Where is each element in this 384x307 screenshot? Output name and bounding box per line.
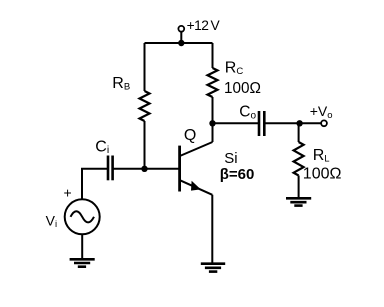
wire RL top lead <box>298 123 300 142</box>
node output junction dot <box>296 120 302 126</box>
wire supply stub <box>180 32 182 43</box>
transistor Q <box>180 123 213 195</box>
resistor RC <box>208 68 218 97</box>
wire base <box>114 168 180 170</box>
wire collector to Co <box>213 122 259 124</box>
svg-text:β=60: β=60 <box>220 166 255 183</box>
svg-text:+12 V: +12 V <box>187 18 221 33</box>
wire Co to output node <box>266 122 322 124</box>
emitter arrow <box>191 181 201 191</box>
ground emitter <box>201 264 225 272</box>
wire RB top lead <box>144 43 146 91</box>
ground RL <box>286 198 311 205</box>
svg-text:100Ω: 100Ω <box>224 80 261 97</box>
node collector junction dot <box>209 120 215 126</box>
wire collector vertical <box>212 123 214 142</box>
wire emitter vertical <box>211 195 213 264</box>
resistor RL <box>294 142 304 176</box>
svg-text:Si: Si <box>224 150 237 167</box>
resistor RB <box>140 91 150 121</box>
svg-text:+: + <box>64 185 72 201</box>
capacitor Co <box>258 111 261 136</box>
svg-text:100Ω: 100Ω <box>303 165 342 182</box>
node junction dot on top rail <box>178 40 184 46</box>
source Vi circle <box>65 199 100 234</box>
wire RB bottom lead <box>144 121 146 169</box>
ground Vi <box>70 259 95 266</box>
source Vi sine <box>71 211 95 222</box>
base bar <box>178 146 181 192</box>
output terminal open circle <box>321 120 327 126</box>
wire Ci to Vi corner <box>82 169 107 199</box>
svg-text:Q: Q <box>184 127 196 144</box>
emitter diagonal <box>180 180 213 195</box>
wire Vi bottom lead <box>81 235 83 259</box>
capacitor Ci <box>107 156 110 181</box>
collector diagonal <box>180 142 213 156</box>
wire top supply rail <box>145 42 213 44</box>
wire RC bottom lead <box>212 97 214 123</box>
wire RL bottom lead <box>298 176 300 199</box>
node junction dot base <box>141 166 147 172</box>
wire RC top lead <box>212 43 214 68</box>
supply terminal open circle <box>178 26 184 32</box>
